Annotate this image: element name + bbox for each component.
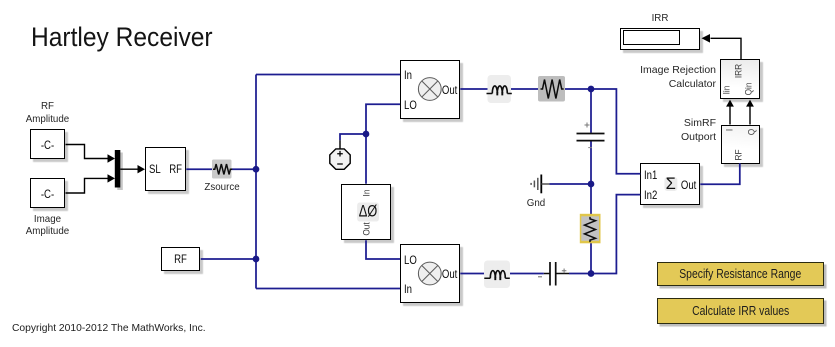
sum block U4 (Sigma) [640, 163, 700, 205]
inductor L2 [484, 261, 510, 289]
node C junction (oscillator/LO) [363, 131, 370, 138]
wire oscillator to LO node C [340, 134, 366, 140]
wire C2 to mux [66, 174, 116, 193]
label IRR (display name) [641, 12, 678, 25]
resistor Zsource [212, 160, 232, 179]
wire RF block to node B [201, 258, 256, 260]
label Gnd [522, 197, 550, 210]
wire mixer U2 Out to capacitor C4 (through L2) [460, 273, 544, 275]
SimRF Outport block [721, 125, 760, 164]
mux M1 [115, 150, 123, 190]
oscillator V1 (sine source) [330, 140, 350, 169]
label RF Amplitude [19, 100, 76, 125]
wire SimRF Outport Q to calculator Qin [746, 100, 754, 125]
block RF (annotation block) [161, 247, 200, 271]
wire node D to capacitor C3 top [590, 89, 592, 133]
wire SimRF Outport I to calculator Iin [726, 100, 734, 125]
button Calculate IRR values [657, 298, 824, 325]
capacitor C4 (horizontal) [538, 262, 569, 286]
wire phase shifter Out to mixer U2 LO [366, 240, 400, 259]
label Zsource [202, 181, 243, 194]
wire SL RF to node A (through Zsource) [186, 168, 256, 170]
node E junction (ground) [588, 181, 595, 188]
ground Gnd [531, 175, 549, 194]
label Image Rejection Calculator [616, 63, 716, 91]
capacitor C3 (vertical) [577, 123, 605, 148]
label Image Amplitude [19, 213, 76, 238]
wire node to mixer U1 In [256, 74, 400, 76]
subsystem SL RF (SimRF input) [145, 147, 186, 191]
resistor R1 [538, 76, 565, 102]
wire capacitor C3 bottom through R2 to node F [590, 141, 592, 273]
inductor L1 [487, 75, 512, 103]
constant block C1 (-C-) RF Amplitude [30, 129, 65, 159]
node B junction (RF block/main bus) [253, 256, 260, 263]
mixer U1 (top I mixer) [400, 60, 460, 119]
display block IRR [620, 28, 700, 50]
wire LO distribution to mixer U1 [366, 104, 400, 184]
mixer U2 circle icon [418, 262, 441, 285]
wire ground to node E [550, 183, 592, 185]
mixer U2 (bottom Q mixer) [400, 244, 460, 303]
label SimRF Outport [616, 116, 716, 144]
wire mux to SL RF [120, 165, 145, 173]
subsystem Image Rejection Calculator [720, 59, 760, 99]
phase shifter U3 (delta-phi 90 deg) [341, 184, 391, 240]
wire mixer U1 Out to sum In1 (through L1 and R1) [460, 89, 640, 174]
wire sum Out to SimRF Outport RF [700, 163, 740, 184]
constant block C2 (-C-) Image Amplitude [30, 178, 65, 208]
title annotation "Hartley Receiver" [31, 22, 213, 53]
node F junction (bottom path/R2) [588, 270, 595, 277]
mixer U1 circle icon [418, 78, 441, 101]
button Specify Resistance Range [657, 262, 824, 287]
copyright annotation [12, 323, 206, 334]
resistor R2 (highlighted yellow) [580, 214, 601, 244]
node D junction (top path/C3) [588, 86, 595, 93]
wire Image Rejection Calculator IRR to display [702, 34, 742, 60]
wire node B to mixer U2 In [256, 288, 400, 290]
wire main vertical bus [255, 75, 257, 289]
wire capacitor C4 to sum In2 [569, 195, 640, 274]
wire C1 to mux [66, 145, 116, 163]
node A junction (Zsource/main bus) [253, 166, 260, 173]
